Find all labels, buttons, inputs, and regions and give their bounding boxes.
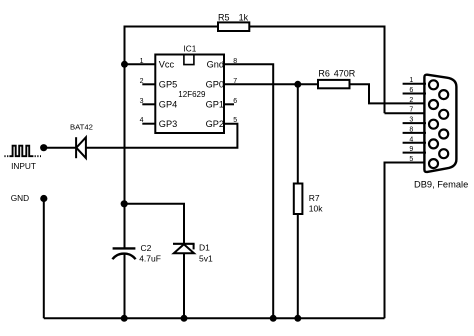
wire DB9 pin 7 horizontal [385,112,425,114]
svg-text:4: 4 [409,136,413,143]
wire IC pin 4 stub [142,123,155,125]
svg-text:D1: D1 [199,243,210,253]
wire DB9 pin 3 stub [403,122,426,124]
svg-text:GND: GND [11,193,29,203]
wire DB9 pin 8 stub [403,132,426,134]
node GND dot [40,195,47,202]
wire DB9 pin 9 stub [403,152,426,154]
node ground rail dot C2 [121,315,128,322]
wire Vcc branch to D1 [125,204,185,244]
wire GND to ground rail [43,199,45,319]
wire R6 to DB9 pin 2 [350,84,425,103]
wire BAT42 anode to IC pin 5 GP2 [86,124,238,148]
wire top rail from Vcc vertical to R5 [125,26,219,28]
DB9 socket pin 7 [439,110,448,119]
svg-text:2: 2 [409,97,413,104]
svg-text:C2: C2 [141,243,152,253]
wire IC pin 3 stub [142,103,155,105]
DB9 socket pin 9 [439,149,448,158]
svg-text:GP2: GP2 [206,119,224,129]
op-amp IC1 body 12F629 [155,45,224,133]
input pulse waveform symbol [4,146,41,157]
DB9 socket pin 8 [439,130,448,139]
DB9 socket pin 1 [429,80,438,89]
svg-text:6: 6 [409,87,413,94]
diode D1 zener 5v1 [173,243,213,264]
svg-text:5: 5 [409,156,413,163]
svg-text:4.7uF: 4.7uF [139,254,161,264]
wire DB9 pin 4 stub [403,142,426,144]
capacitor C2 [112,243,161,264]
wire DB9 pin 1 stub [403,83,426,85]
wire D1 anode to ground rail [183,253,185,318]
svg-text:1k: 1k [239,13,249,23]
svg-text:INPUT: INPUT [11,161,36,171]
wire R7 bottom lead to ground rail [297,214,299,318]
svg-text:BAT42: BAT42 [70,123,93,132]
wire below C2 to ground rail [124,254,126,318]
wire left Vcc vertical [124,26,126,249]
node input dot [40,144,47,151]
svg-text:1: 1 [140,58,144,65]
svg-text:Gnd: Gnd [207,60,224,70]
svg-text:8: 8 [409,126,413,133]
wire right vertical down to DB9 pin 7 [384,26,386,114]
DB9 socket pin 4 [429,139,438,148]
wire IC pin 6 stub [224,103,234,105]
wire IC pin 7 GP0 to R6 [224,83,318,85]
svg-text:R6: R6 [318,69,330,79]
svg-text:12F629: 12F629 [178,90,206,99]
node R7 junction dot [294,81,301,88]
node ground rail dot IC Gnd [270,315,277,322]
wire IC pin 8 Gnd to ground rail [224,64,273,318]
svg-text:GP5: GP5 [159,80,177,90]
svg-text:GP1: GP1 [206,100,224,110]
svg-text:5v1: 5v1 [199,253,213,263]
svg-text:470R: 470R [334,69,356,79]
node Vcc junction dot [121,61,128,68]
svg-text:Vcc: Vcc [159,60,175,70]
wire IC pin 2 stub [142,83,155,85]
ground rail wire [44,317,385,319]
node ground rail dot R7 [294,315,301,322]
diode BAT42 [70,123,93,159]
svg-text:DB9, Female: DB9, Female [414,179,468,189]
DB9 socket pin 2 [429,100,438,109]
svg-text:10k: 10k [309,204,323,214]
svg-text:7: 7 [409,107,413,114]
wire DB9 pin 5 to ground rail [385,163,425,319]
svg-text:R7: R7 [309,193,320,203]
svg-text:R5: R5 [218,13,230,23]
node ground rail dot D1 [181,315,188,322]
svg-text:GP0: GP0 [206,80,224,90]
DB9 socket pin 5 [429,159,438,168]
wire input to BAT42 cathode [44,147,76,149]
wire R5 to right vertical [249,26,384,28]
svg-text:9: 9 [409,146,413,153]
resistor R5 [218,13,249,31]
connector DB9 female body [424,75,456,172]
svg-text:1: 1 [409,77,413,84]
wire IC pin 1 Vcc [125,63,156,65]
svg-text:3: 3 [409,117,413,124]
node D1 branch junction dot [121,200,128,207]
wire R7 top lead [297,84,299,183]
wire DB9 pin 6 stub [403,93,426,95]
resistor R7 [294,184,323,215]
svg-text:GP3: GP3 [159,119,177,129]
svg-text:GP4: GP4 [159,100,177,110]
resistor R6 [318,69,356,89]
DB9 socket pin 6 [439,90,448,99]
DB9 socket pin 3 [429,120,438,129]
svg-text:IC1: IC1 [184,45,197,54]
